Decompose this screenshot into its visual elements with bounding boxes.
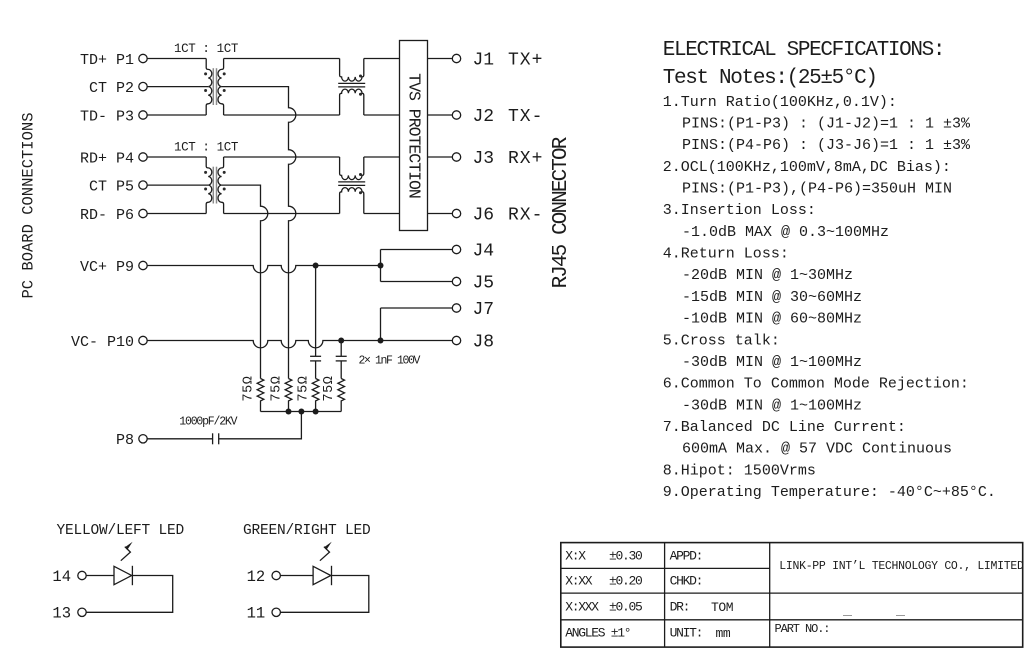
wire P3 to T1 primary bottom (147, 114, 206, 116)
svg-text:ELECTRICAL SPECFICATIONS:: ELECTRICAL SPECFICATIONS: (663, 39, 944, 62)
svg-text:±0.20: ±0.20 (609, 574, 642, 589)
svg-text:J2: J2 (473, 107, 495, 127)
pin J2 (452, 111, 460, 119)
arrow emission (121, 547, 131, 561)
common-mode choke L2 (340, 157, 364, 180)
arrow emission (320, 547, 330, 561)
svg-text:P8: P8 (116, 432, 134, 449)
svg-text:J6: J6 (473, 206, 495, 226)
capacitor C3 1000pF/2KV (218, 433, 220, 444)
wire to J5 (381, 281, 453, 283)
wire P1 to T1 primary top (147, 58, 206, 60)
svg-text:ANGLES ±1°: ANGLES ±1° (565, 626, 630, 641)
svg-text:VC+ P9: VC+ P9 (80, 259, 134, 276)
wire C2 to R4 (340, 361, 342, 379)
wire anode (280, 575, 313, 577)
svg-text:4.Return Loss:: 4.Return Loss: (663, 246, 789, 263)
svg-text:1CT : 1CT: 1CT : 1CT (174, 141, 239, 155)
wire cathode loop (86, 576, 173, 613)
title block table (561, 543, 1023, 648)
svg-text:8.Hipot: 1500Vrms: 8.Hipot: 1500Vrms (663, 462, 816, 479)
resistor R3 75ohm (312, 379, 319, 412)
svg-text:-10dB MIN @ 60~80MHz: -10dB MIN @ 60~80MHz (682, 311, 862, 328)
wire choke L2 top to TVS (364, 156, 400, 158)
svg-text:PART NO.:: PART NO.: (775, 622, 830, 636)
wire P6 to T2 primary bottom (147, 213, 206, 215)
svg-text:GREEN/RIGHT LED: GREEN/RIGHT LED (243, 523, 371, 539)
wire P2 to T1 primary center tap (147, 86, 208, 88)
svg-text:11: 11 (247, 605, 266, 623)
svg-text:RD+ P4: RD+ P4 (80, 150, 134, 167)
junction node VC+/J4J5 (378, 263, 384, 269)
wire TVS to J2 (428, 114, 453, 116)
pin J4 (452, 245, 460, 253)
wire T2 secondary top to choke L2 (224, 156, 340, 158)
pin J3 (452, 153, 460, 161)
junction rail/R3 (313, 409, 319, 415)
svg-text:CT P5: CT P5 (89, 178, 134, 195)
junction node VC-/V4 (338, 338, 344, 344)
pin J8 (452, 336, 460, 344)
svg-text:7.Balanced DC Line Current:: 7.Balanced DC Line Current: (663, 419, 906, 436)
svg-text:CT P2: CT P2 (89, 80, 134, 97)
wire C1 to R3 (315, 361, 317, 379)
svg-text:75Ω: 75Ω (297, 376, 312, 402)
resistor R2 75ohm (285, 379, 292, 412)
wire TVS to J3 (428, 156, 453, 158)
svg-text:TD- P3: TD- P3 (80, 108, 134, 125)
wire J4/J5 branch vertical (380, 250, 382, 282)
svg-text:12: 12 (247, 568, 266, 586)
svg-text:3.Insertion Loss:: 3.Insertion Loss: (663, 202, 816, 219)
capacitor C1 1nF (310, 355, 321, 357)
svg-text:75Ω: 75Ω (270, 376, 285, 402)
junction rail/P8 branch (298, 409, 304, 415)
svg-text:J8: J8 (473, 333, 495, 353)
wire P4 to T2 primary top (147, 156, 206, 158)
svg-text:1CT : 1CT: 1CT : 1CT (174, 42, 239, 56)
wire T1 secondary CT to vertical V2 (hops rows C,D,F) (222, 87, 296, 379)
junction rail/R2 (286, 409, 292, 415)
svg-text:TOM: TOM (711, 600, 733, 615)
svg-text:RJ45 CONNECTOR: RJ45 CONNECTOR (550, 136, 573, 288)
svg-text:UNIT:: UNIT: (670, 626, 703, 641)
wire rail down to P8 row (219, 412, 302, 439)
svg-text:6.Common To Common Mode Reject: 6.Common To Common Mode Rejection: (663, 376, 969, 393)
svg-text:5.Cross talk:: 5.Cross talk: (663, 332, 780, 349)
svg-text:600mA Max. @ 57 VDC Continuous: 600mA Max. @ 57 VDC Continuous (682, 441, 952, 458)
wire T2 secondary bottom to choke L2 bottom (224, 213, 340, 215)
svg-text:-1.0dB MAX @ 0.3~100MHz: -1.0dB MAX @ 0.3~100MHz (682, 224, 889, 241)
svg-text:Test Notes:(25±5°C): Test Notes:(25±5°C) (663, 67, 877, 90)
wire ground rail joining R1-R4 (261, 411, 342, 413)
pin J1 (452, 54, 460, 62)
junction node VC-/J7J8 (378, 338, 384, 344)
svg-text:APPD:: APPD: (670, 549, 703, 564)
wire J7 branch vertical (380, 308, 382, 341)
svg-text:13: 13 (52, 605, 71, 623)
svg-text:VC- P10: VC- P10 (71, 334, 134, 351)
LED diode (313, 566, 331, 584)
wire choke L2 bottom to TVS (364, 213, 400, 215)
wire C3 to P8 (147, 438, 212, 440)
svg-text:1000pF/2KV: 1000pF/2KV (179, 416, 237, 429)
svg-text:-30dB MIN @ 1~100MHz: -30dB MIN @ 1~100MHz (682, 397, 862, 414)
svg-text:PINS:(P1-P3),(P4-P6)=350uH MIN: PINS:(P1-P3),(P4-P6)=350uH MIN (682, 181, 952, 198)
svg-text:J5: J5 (473, 274, 495, 294)
svg-text:J4: J4 (473, 242, 495, 262)
svg-text:TX+: TX+ (508, 51, 543, 71)
wire VC- P10 rail with hop-unders at V1,V2,V3 (147, 341, 452, 348)
wire choke L1 top to TVS (364, 58, 400, 60)
wire P5 to T2 primary center tap (147, 184, 208, 186)
svg-text:-30dB MIN @ 1~100MHz: -30dB MIN @ 1~100MHz (682, 354, 862, 371)
svg-text:X:XXX: X:XXX (565, 600, 599, 615)
wire TVS to J1 (428, 58, 453, 60)
svg-text:-15dB MIN @ 30~60MHz: -15dB MIN @ 30~60MHz (682, 289, 862, 306)
svg-text:RX+: RX+ (508, 149, 543, 169)
svg-text:2× 1nF 100V: 2× 1nF 100V (359, 354, 421, 367)
wire V4 from VC- junction down to C2 (340, 341, 342, 357)
wire to J4 (381, 249, 453, 251)
resistor R4 75ohm (338, 379, 345, 412)
svg-text:±0.05: ±0.05 (609, 600, 642, 615)
svg-text:±0.30: ±0.30 (609, 549, 642, 564)
svg-text:J1: J1 (473, 51, 495, 71)
svg-text:14: 14 (52, 568, 71, 586)
wire T2 secondary CT to vertical V1 (hops row F) (222, 185, 268, 378)
wire T1 secondary top to choke L1 (224, 58, 340, 60)
svg-text:CHKD:: CHKD: (670, 574, 703, 589)
svg-text:TVS PROTECTION: TVS PROTECTION (404, 73, 423, 198)
wire anode (86, 575, 114, 577)
pin J7 (452, 304, 460, 312)
svg-text:YELLOW/LEFT LED: YELLOW/LEFT LED (57, 523, 185, 539)
resistor R1 75ohm (257, 379, 264, 412)
svg-text:-20dB MIN @ 1~30MHz: -20dB MIN @ 1~30MHz (682, 267, 853, 284)
svg-text:9.Operating Temperature: -40°C: 9.Operating Temperature: -40°C~+85°C. (663, 484, 996, 501)
wire cathode loop (280, 576, 368, 613)
capacitor C2 1nF (336, 355, 347, 357)
svg-text:RX-: RX- (508, 206, 543, 226)
TVS protection box U1 (400, 41, 428, 231)
svg-text:RD- P6: RD- P6 (80, 207, 134, 224)
svg-text:PC BOARD CONNECTIONS: PC BOARD CONNECTIONS (20, 112, 38, 298)
svg-text:PINS:(P1-P3) : (J1-J2)=1 : 1 ±: PINS:(P1-P3) : (J1-J2)=1 : 1 ±3% (682, 115, 971, 132)
wire TVS to J6 (428, 213, 453, 215)
svg-text:J3: J3 (473, 149, 495, 169)
svg-text:75Ω: 75Ω (322, 376, 337, 402)
svg-text:2.OCL(100KHz,100mV,8mA,DC Bias: 2.OCL(100KHz,100mV,8mA,DC Bias): (663, 159, 951, 176)
svg-text:X:X: X:X (565, 549, 586, 564)
wire T1 secondary bottom to choke L1 bottom (224, 114, 340, 116)
pin J5 (452, 277, 460, 285)
svg-text:75Ω: 75Ω (242, 376, 257, 402)
svg-text:J7: J7 (473, 300, 495, 320)
junction node VC+/V3 (313, 263, 319, 269)
svg-text:TD+ P1: TD+ P1 (80, 52, 134, 69)
svg-text:X:XX: X:XX (565, 574, 593, 589)
wire VC+ P9 rail with hop-unders at V1,V2 (147, 266, 380, 273)
wire V3 from VC+ junction down to C1 (315, 266, 317, 357)
wire choke L1 bottom to TVS (364, 114, 400, 116)
svg-text:LINK-PP INT’L TECHNOLOGY CO.,: LINK-PP INT’L TECHNOLOGY CO., LIMITED (779, 560, 1024, 573)
svg-text:1.Turn Ratio(100KHz,0.1V):: 1.Turn Ratio(100KHz,0.1V): (663, 94, 897, 111)
svg-text:mm: mm (716, 626, 731, 641)
pin J6 (452, 209, 460, 217)
svg-text:PINS:(P4-P6) : (J3-J6)=1 : 1 ±: PINS:(P4-P6) : (J3-J6)=1 : 1 ±3% (682, 137, 971, 154)
wire to J7 (381, 307, 453, 309)
svg-text:DR:: DR: (670, 600, 690, 615)
common-mode choke L1 (340, 59, 364, 82)
LED diode (114, 566, 132, 584)
svg-text:TX-: TX- (508, 107, 543, 127)
